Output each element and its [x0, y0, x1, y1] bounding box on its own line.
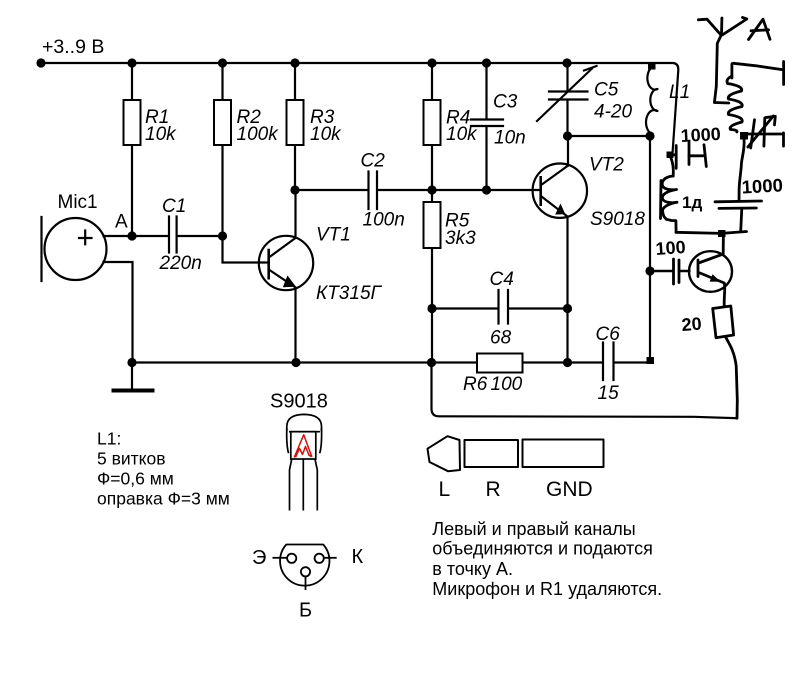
svg-text:1000: 1000	[741, 174, 783, 197]
svg-text:10k: 10k	[446, 124, 478, 145]
svg-text:100k: 100k	[237, 124, 280, 145]
svg-text:3k3: 3k3	[445, 228, 476, 249]
svg-text:КТ315Г: КТ315Г	[316, 283, 383, 304]
svg-text:20: 20	[681, 314, 702, 335]
svg-text:1д: 1д	[682, 193, 702, 212]
svg-text:A: A	[115, 212, 128, 233]
svg-text:S9018: S9018	[270, 391, 328, 413]
svg-text:оправка Ф=3 мм: оправка Ф=3 мм	[97, 489, 230, 509]
svg-text:L1:: L1:	[97, 429, 121, 449]
svg-text:Ф=0,6 мм: Ф=0,6 мм	[97, 469, 174, 489]
svg-text:L: L	[439, 478, 451, 501]
svg-text:в точку А.: в точку А.	[432, 559, 513, 579]
svg-text:100: 100	[491, 374, 523, 395]
svg-text:VT2: VT2	[589, 155, 624, 176]
svg-text:100: 100	[655, 237, 686, 259]
svg-text:VT1: VT1	[316, 225, 351, 246]
svg-text:68: 68	[490, 328, 512, 349]
svg-text:5 витков: 5 витков	[97, 449, 166, 469]
svg-text:+3..9 В: +3..9 В	[42, 36, 104, 58]
svg-text:100n: 100n	[363, 210, 405, 231]
svg-text:L1: L1	[669, 82, 690, 103]
svg-text:R6: R6	[463, 374, 488, 395]
svg-text:10n: 10n	[494, 128, 526, 149]
svg-text:10k: 10k	[310, 124, 342, 145]
svg-text:220n: 220n	[159, 253, 202, 274]
svg-text:10k: 10k	[145, 124, 177, 145]
svg-text:C6: C6	[596, 324, 621, 345]
svg-text:C4: C4	[490, 269, 514, 290]
svg-text:Б: Б	[299, 600, 312, 622]
svg-text:R: R	[486, 478, 501, 501]
svg-text:1000: 1000	[680, 124, 721, 146]
svg-text:Микрофон и R1 удаляются.: Микрофон и R1 удаляются.	[432, 579, 662, 599]
svg-text:Э: Э	[252, 547, 266, 569]
svg-text:C3: C3	[493, 92, 518, 113]
svg-text:объединяются и подаются: объединяются и подаются	[432, 539, 653, 559]
svg-text:Mic1: Mic1	[58, 192, 98, 213]
svg-text:К: К	[352, 546, 364, 568]
svg-text:GND: GND	[546, 478, 593, 501]
svg-text:15: 15	[598, 383, 620, 404]
svg-text:4-20: 4-20	[594, 102, 632, 123]
svg-text:C2: C2	[361, 151, 386, 172]
svg-text:S9018: S9018	[590, 209, 645, 230]
svg-text:C1: C1	[162, 196, 186, 217]
svg-text:Левый и правый каналы: Левый и правый каналы	[432, 519, 635, 539]
svg-text:C5: C5	[594, 80, 619, 101]
